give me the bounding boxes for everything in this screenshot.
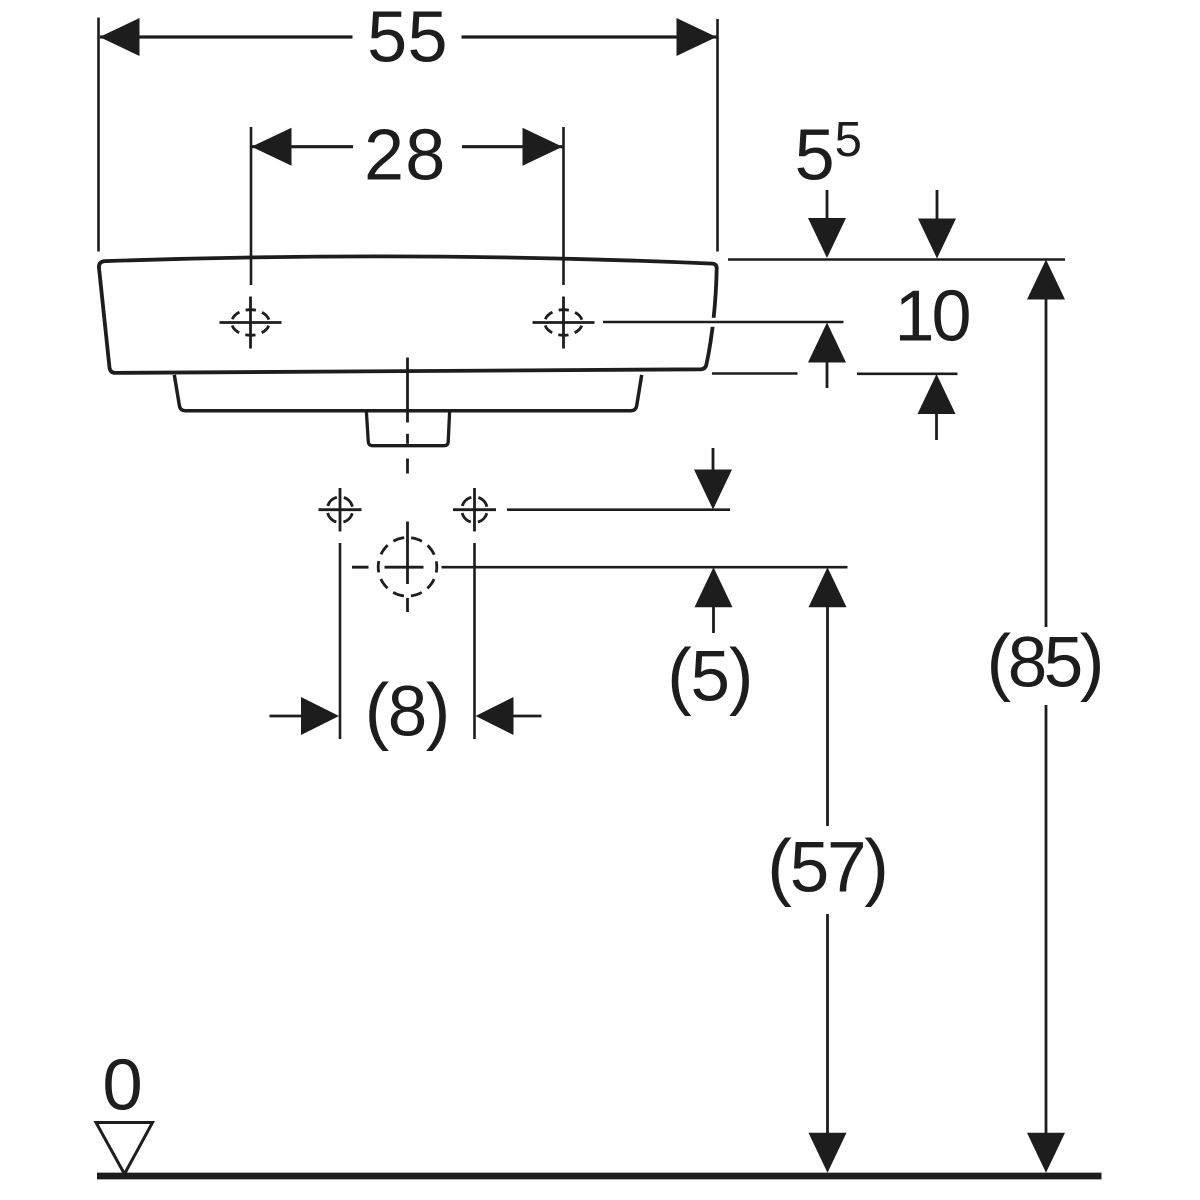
svg-text:0: 0 [102,1044,142,1125]
ledge level line segment (L3) [857,372,958,375]
anchor hole left: dashed circle [327,497,353,523]
anchor hole left: cross horizontal [319,508,362,511]
dim (85) line lower segment [1045,705,1048,1135]
dimension 28 extension line right [562,127,565,285]
faucet hole left: cross horizontal [220,321,282,324]
dim (8) arrowhead pointing right [301,697,339,735]
dim (8) left tail [270,715,304,718]
anchor hole level line to the right [507,508,730,511]
faucet hole level line to the right (L2) [603,321,844,324]
anchor hole right: dashed circle [462,497,488,523]
dim 10 arrowhead up at L3 [918,374,956,414]
dim (85) line upper segment [1045,299,1048,628]
dimension 28 extension line left [250,127,253,285]
dim 10 upper arrow tail [936,190,939,222]
dimension 55 arrowhead left [100,18,140,56]
dimension 55 line left segment [100,35,353,38]
dim 10 lower arrow tail [935,413,938,440]
svg-text:28: 28 [364,115,447,195]
dimension 28 arrowhead right [523,128,563,166]
anchor hole extension line right (vertical) [473,543,476,739]
svg-text:(5): (5) [667,634,752,717]
dim 5.5 arrowhead down at L1 [808,218,846,258]
faucet hole left: dashed ellipse [232,310,270,336]
faucet hole right: cross horizontal [533,321,595,324]
drain box outline [366,412,449,446]
drain pipe horizontal centerline through circle [385,566,424,569]
svg-text:55: 55 [367,0,448,77]
dim (5) upper arrow tail [712,448,715,474]
dim 5.5 arrowhead up at L2 [808,323,846,363]
centerline of basin (dash-dot vertical) [406,358,409,423]
dim (57) arrowhead down at ground [809,1133,847,1173]
top edge level line to the right (L1) [728,258,1065,261]
dim (5) arrowhead down at anchor line [694,470,732,510]
drain pipe dashed circle [378,538,437,597]
anchor hole right: cross horizontal [453,508,496,511]
faucet hole left: cross vertical [249,297,252,349]
dim (57) line lower segment [826,914,829,1135]
dim (5) arrowhead up at drain line [695,567,733,607]
dim 10 arrowhead down at L1 [918,219,956,259]
dim (8) right tail [512,715,542,718]
drain pipe level line to the right [442,566,848,569]
anchor hole extension line left (vertical) [339,543,342,739]
svg-text:10: 10 [894,277,969,357]
svg-text:(57): (57) [767,825,886,908]
dimension 28 line right segment [462,145,563,148]
dimension 55 arrowhead right [677,18,717,56]
washbasin lower tier outline [174,375,641,411]
white break in right edge where hole centerline crosses [704,318,719,327]
ledge level short line right of basin [712,372,798,375]
dim (85) arrowhead down at ground [1027,1133,1065,1173]
dim (57) line upper segment [826,606,829,826]
dim (57) arrowhead up at drain line [809,567,847,607]
anchor hole right: cross vertical [473,488,476,532]
dim (8) arrowhead pointing left [476,697,514,735]
dim 5.5 upper arrow tail [826,190,829,222]
datum triangle [96,1123,153,1175]
drain pipe horizontal centerline dash left [352,566,369,569]
dimension 55 extension line left [97,18,100,252]
dim (85) arrowhead up at L1 [1027,260,1065,300]
svg-text:(8): (8) [365,669,449,752]
anchor hole left: cross vertical [339,488,342,532]
dim 5.5 lower arrow tail [826,362,829,388]
ground line [97,1173,1102,1180]
svg-text:(85): (85) [986,620,1101,703]
dimension 28 arrowhead left [252,128,292,166]
faucet hole right: dashed ellipse [545,310,583,336]
dimension 28 line left segment [252,145,353,148]
faucet hole right: cross vertical [562,297,565,349]
dim (5) lower arrow tail [712,606,715,633]
washbasin upper body outline [99,256,717,373]
dimension 55 extension line right [716,19,719,252]
dimension 55 line right segment [462,35,717,38]
